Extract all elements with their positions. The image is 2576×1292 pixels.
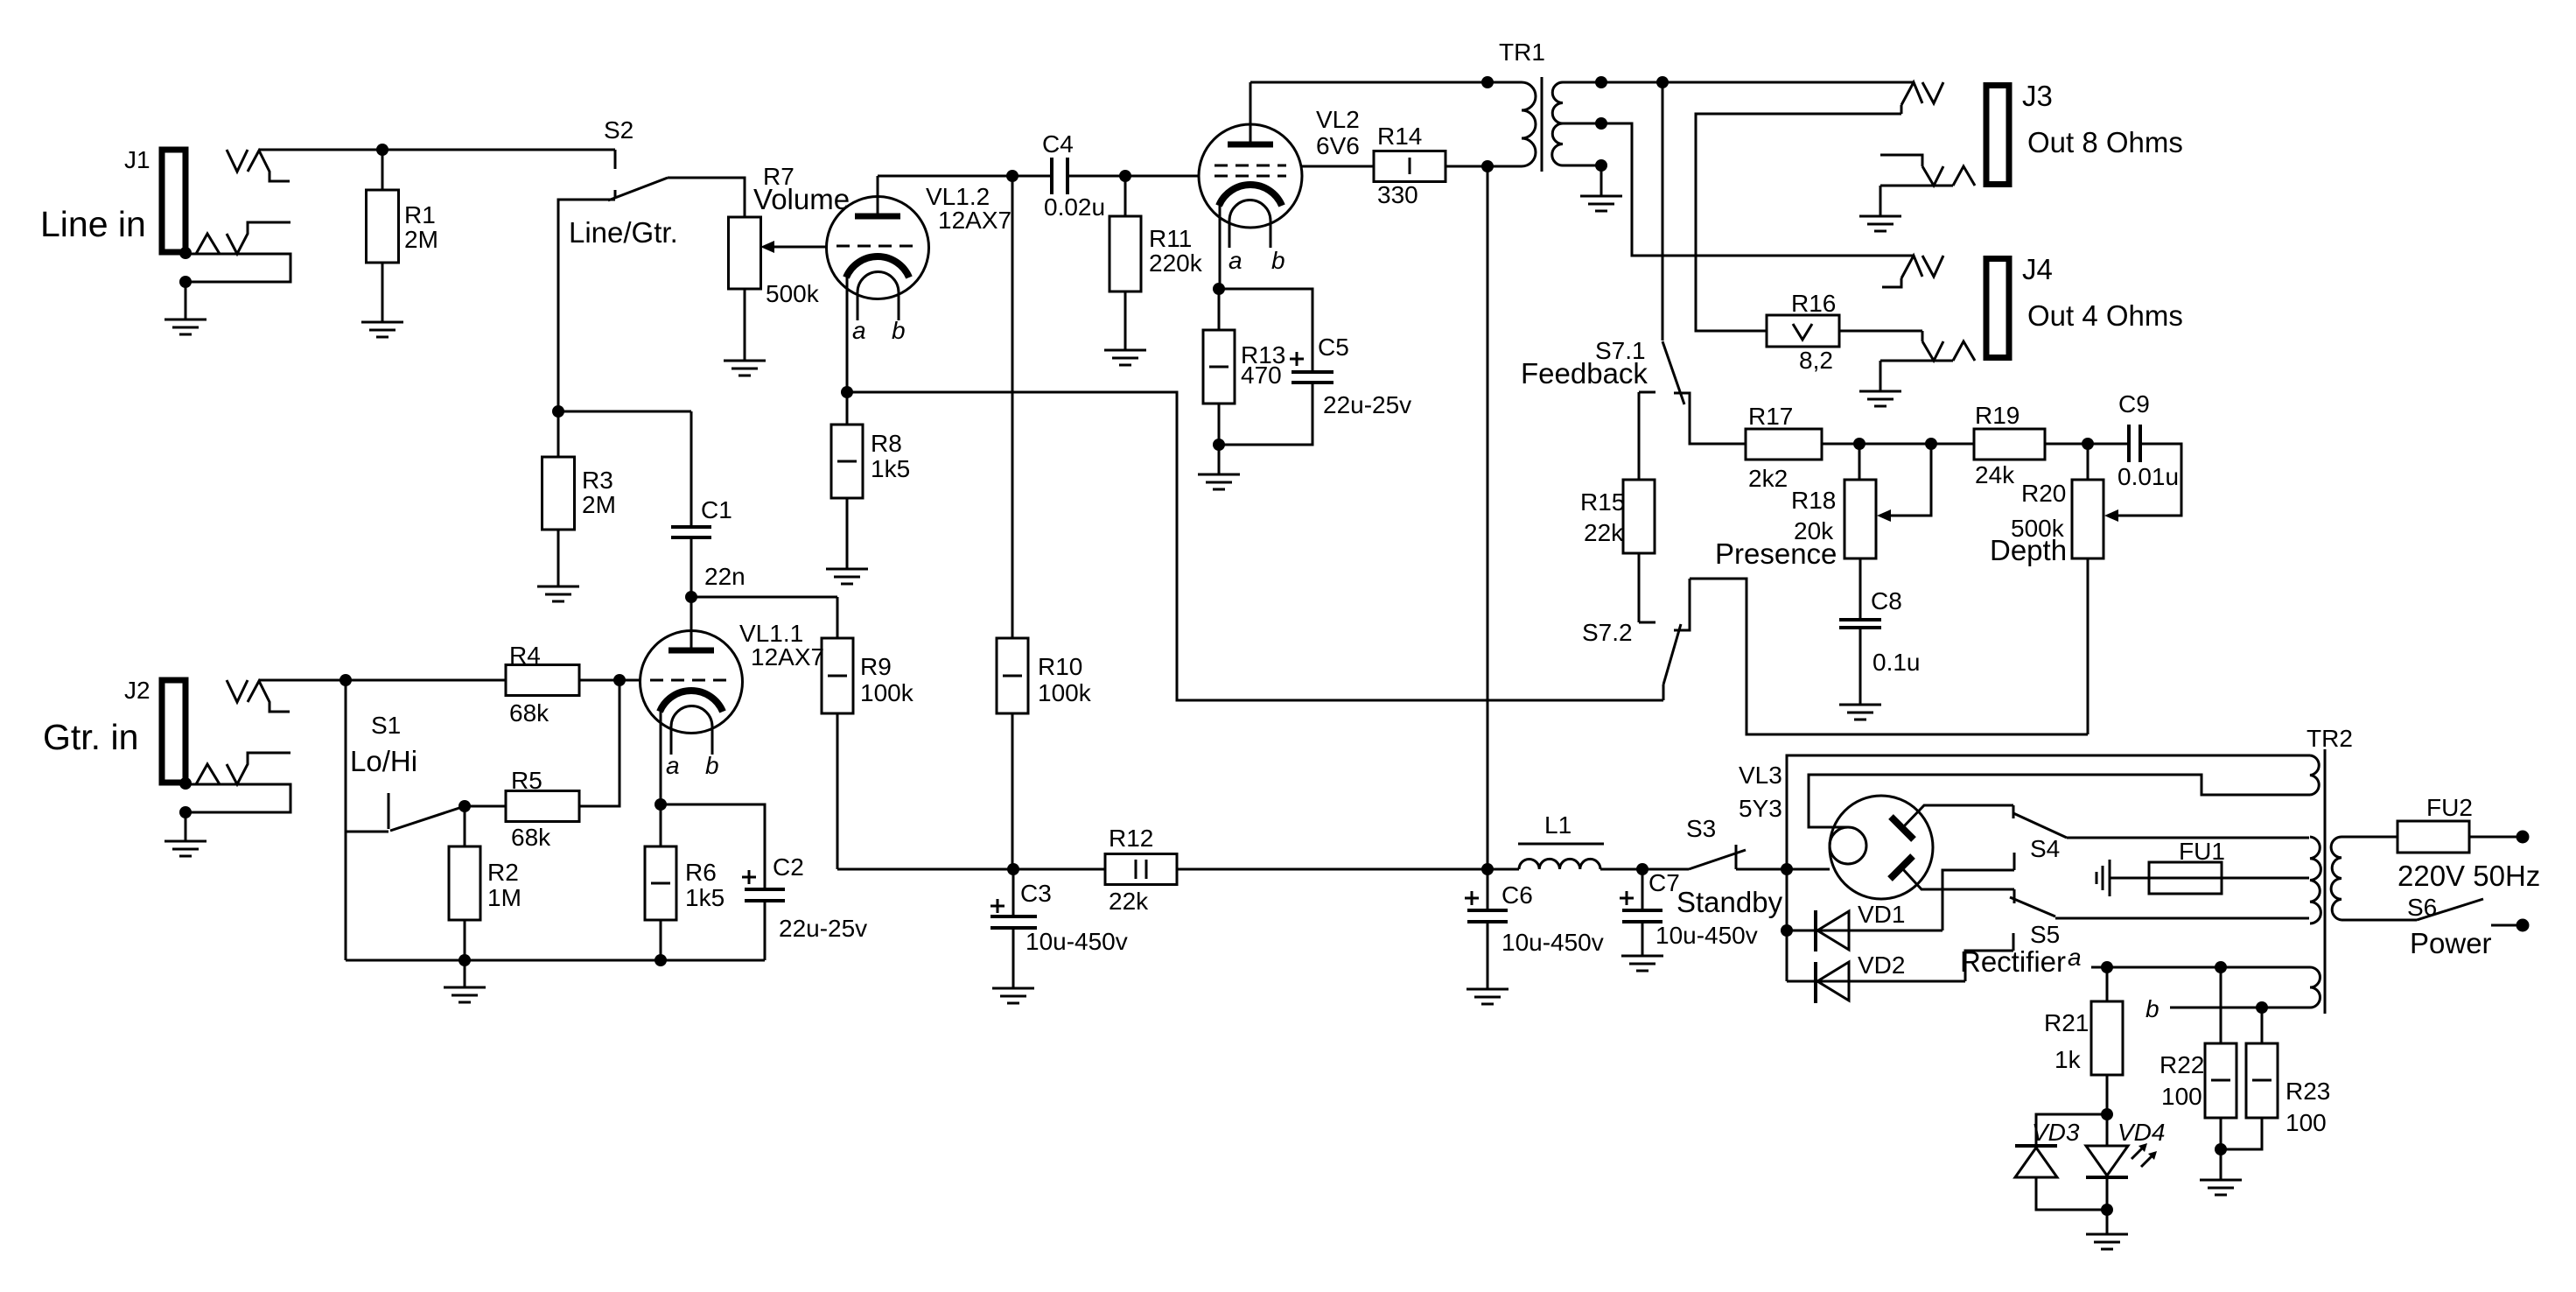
wire TR1 bottom down to main bus: [1487, 166, 1489, 869]
svg-text:Feedback: Feedback: [1521, 357, 1648, 390]
resistor R12 22k: [1105, 825, 1177, 915]
wire heater winding a: [2091, 966, 2310, 969]
svg-text:220k: 220k: [1149, 249, 1203, 277]
capacitor C5 22u-25v: [1219, 289, 1411, 445]
svg-text:S3: S3: [1686, 815, 1716, 842]
resistor R11 220k: [1109, 176, 1203, 350]
svg-text:b: b: [2145, 995, 2159, 1022]
svg-text:a: a: [666, 752, 680, 779]
svg-text:1k: 1k: [2054, 1046, 2082, 1073]
svg-text:Out 8 Ohms: Out 8 Ohms: [2027, 126, 2183, 158]
svg-text:0.1u: 0.1u: [1872, 649, 1921, 676]
svg-text:10u-450v: 10u-450v: [1501, 929, 1604, 956]
node S1/R5/R2: [458, 800, 471, 812]
svg-text:22k: 22k: [1109, 888, 1149, 915]
jack J2 Gtr. in: [43, 677, 290, 812]
svg-text:b: b: [892, 317, 906, 344]
resistor R8 1k5: [831, 392, 910, 569]
resistor R23 100: [2221, 1008, 2330, 1149]
ground under R8: [826, 569, 868, 584]
svg-text:R18: R18: [1791, 487, 1836, 514]
node J2 sleeve: [179, 777, 192, 790]
transformer TR2: [2306, 725, 2353, 1014]
svg-text:100: 100: [2161, 1083, 2202, 1110]
ground under R13: [1218, 445, 1221, 474]
diode VD2: [1787, 933, 2013, 1003]
wire S7.1 drop: [1662, 82, 1664, 341]
wire S7.2 upper contact to R20 bottom line: [1690, 579, 2088, 734]
diode VD3: [2015, 1114, 2107, 1210]
ground under C7: [1621, 956, 1663, 971]
svg-text:VD4: VD4: [2117, 1119, 2165, 1146]
tube VL1.2 12AX7: [827, 176, 1012, 392]
wire to VL2 grid: [1125, 175, 1199, 178]
svg-text:J1: J1: [124, 146, 150, 173]
switch S2 Line/Gtr.: [569, 116, 678, 249]
resistor R22 100: [2159, 967, 2236, 1149]
node R18 wiper takeoff: [1925, 438, 1937, 450]
node VL3 B+: [1781, 863, 1793, 875]
node VL2 cathode R13: [1213, 283, 1225, 295]
wire C1 node to R9: [691, 596, 837, 599]
svg-text:Volume: Volume: [753, 183, 850, 215]
node rail/R2: [458, 954, 471, 966]
node R8 cathode junction: [841, 386, 853, 398]
svg-text:C9: C9: [2118, 390, 2150, 418]
wire S2 common to R7: [668, 178, 745, 217]
svg-text:R17: R17: [1748, 403, 1793, 430]
resistor R3 2M: [542, 411, 616, 586]
wire secondary mid to J4 tip: [1601, 123, 1914, 256]
svg-text:R14: R14: [1377, 123, 1422, 150]
wire heater winding b: [2170, 1007, 2310, 1009]
node R1 top: [376, 144, 388, 156]
svg-text:S5: S5: [2030, 921, 2060, 948]
node R13 bottom: [1213, 439, 1225, 451]
node J2 ground: [179, 806, 192, 818]
node C6/L1: [1481, 863, 1494, 875]
switch S5 Rectifier: [1960, 897, 2066, 978]
inductor L1: [1518, 811, 1604, 869]
svg-text:VD1: VD1: [1858, 901, 1905, 928]
svg-text:C8: C8: [1871, 587, 1902, 614]
svg-text:R8: R8: [871, 430, 902, 457]
capacitor C8 0.1u: [1839, 587, 1921, 705]
node VL1.1 cathode: [654, 798, 667, 811]
ground under J3: [1879, 186, 1882, 216]
svg-text:R5: R5: [511, 767, 542, 794]
wire main B+ bus: [837, 868, 1105, 871]
svg-text:2M: 2M: [582, 491, 616, 518]
node R19/R20: [2082, 438, 2094, 450]
wire S5 to TR2: [2055, 917, 2309, 920]
ground under C8: [1839, 705, 1881, 720]
capacitor C1 22n: [671, 411, 745, 597]
svg-text:12AX7: 12AX7: [751, 643, 824, 671]
potentiometer R18 Presence 20k: [1715, 444, 1931, 620]
capacitor C6 10u-450v: [1465, 869, 1604, 989]
svg-text:24k: 24k: [1975, 461, 2015, 488]
resistor R14 330: [1302, 123, 1487, 208]
jack J4 Out 4 Ohms: [1880, 253, 2183, 361]
resistor R13 470: [1203, 289, 1285, 445]
svg-text:FU2: FU2: [2426, 794, 2473, 821]
node J1 sleeve: [179, 247, 192, 259]
wire secondary top to J3 tip: [1601, 81, 1914, 84]
node C4/R10: [1006, 170, 1018, 182]
fuse FU2: [2341, 794, 2523, 853]
wire node line: [1859, 443, 1974, 446]
svg-text:S4: S4: [2030, 835, 2060, 862]
svg-text:Presence: Presence: [1715, 537, 1837, 570]
capacitor C2 22u-25v: [661, 804, 867, 960]
jack J1 Line in: [40, 146, 290, 282]
svg-text:VL3: VL3: [1739, 762, 1782, 789]
node VD3/VD4 bottom: [2101, 1204, 2113, 1216]
svg-text:a: a: [852, 317, 866, 344]
wire J3 tip stub to R16: [1696, 114, 1901, 331]
resistor R1 2M: [367, 150, 438, 322]
node S1 top: [339, 674, 352, 686]
ground under R7: [724, 361, 766, 376]
svg-text:5Y3: 5Y3: [1739, 795, 1782, 822]
svg-text:Line/Gtr.: Line/Gtr.: [569, 216, 678, 249]
resistor R15 22k: [1580, 392, 1655, 622]
svg-text:J4: J4: [2022, 253, 2053, 285]
svg-text:2M: 2M: [404, 226, 438, 253]
switch S3 Standby: [1676, 815, 1787, 918]
svg-text:Gtr. in: Gtr. in: [43, 717, 138, 757]
svg-text:22u-25v: 22u-25v: [1323, 391, 1411, 418]
svg-text:12AX7: 12AX7: [938, 207, 1011, 234]
wire S2 lower contact to R3/C1 node: [558, 200, 615, 411]
svg-text:10u-450v: 10u-450v: [1655, 922, 1758, 949]
ground under rail: [464, 960, 466, 987]
svg-text:a: a: [2068, 944, 2082, 971]
svg-text:2k2: 2k2: [1748, 465, 1788, 492]
svg-text:R19: R19: [1975, 402, 2019, 429]
svg-text:R16: R16: [1791, 290, 1836, 317]
ground under J4: [1879, 361, 1882, 391]
svg-text:68k: 68k: [511, 824, 551, 851]
ground under VD3/VD4: [2106, 1210, 2109, 1234]
svg-text:J2: J2: [124, 677, 150, 704]
wire node to C1: [558, 411, 691, 413]
svg-text:Rectifier: Rectifier: [1960, 945, 2066, 978]
svg-text:C2: C2: [773, 853, 804, 881]
svg-text:Standby: Standby: [1676, 886, 1783, 918]
svg-text:J3: J3: [2022, 80, 2053, 112]
resistor R10 100k: [997, 176, 1092, 869]
switch S6 Power: [2341, 894, 2523, 959]
ground under C3: [992, 988, 1034, 1003]
svg-text:220V 50Hz: 220V 50Hz: [2397, 860, 2540, 892]
node R22 top: [2215, 961, 2227, 973]
svg-text:22n: 22n: [704, 563, 745, 590]
diode VD1: [1787, 853, 2014, 951]
ground under TR1 secondary: [1600, 165, 1603, 196]
svg-text:C4: C4: [1042, 130, 1074, 158]
wire J2 to R4: [259, 679, 506, 682]
svg-text:R6: R6: [685, 859, 717, 886]
svg-text:C5: C5: [1318, 334, 1349, 361]
potentiometer R20 Depth 500k: [1990, 444, 2181, 734]
resistor R5 68k: [465, 680, 619, 851]
svg-text:S1: S1: [371, 712, 401, 739]
fuse FU1: [2110, 838, 2309, 894]
node TR1 secondary mid: [1595, 117, 1607, 130]
node R22/R23 ground: [2215, 1143, 2227, 1155]
svg-text:1M: 1M: [487, 884, 521, 911]
resistor R4 68k: [506, 642, 619, 727]
wire VL3 node down to diodes: [1786, 869, 1788, 981]
svg-text:R20: R20: [2021, 480, 2066, 507]
svg-text:1k5: 1k5: [871, 455, 910, 482]
svg-text:R9: R9: [860, 653, 892, 680]
svg-text:R15: R15: [1580, 488, 1625, 516]
ground at FU1: [2096, 860, 2110, 896]
svg-text:0.01u: 0.01u: [2117, 463, 2179, 490]
resistor R16 8,2: [1767, 290, 1922, 374]
svg-text:Depth: Depth: [1990, 534, 2067, 566]
svg-text:68k: 68k: [509, 699, 549, 727]
svg-text:1k5: 1k5: [685, 884, 724, 911]
resistor R9 100k: [822, 597, 914, 869]
svg-text:S7.2: S7.2: [1582, 619, 1633, 646]
svg-text:8,2: 8,2: [1799, 347, 1833, 374]
jack J3 Out 8 Ohms: [1880, 80, 2183, 186]
node VL1.1 grid: [613, 674, 626, 686]
node TR1 secondary bottom: [1595, 159, 1607, 172]
svg-text:VD3: VD3: [2032, 1119, 2080, 1146]
node C4/R11: [1119, 170, 1131, 182]
switch S7.2: [1582, 579, 1690, 700]
svg-text:Line in: Line in: [40, 204, 146, 244]
svg-text:S6: S6: [2407, 894, 2437, 921]
svg-text:10u-450v: 10u-450v: [1025, 928, 1128, 955]
svg-text:TR1: TR1: [1499, 39, 1545, 66]
node J1 ground: [179, 276, 192, 288]
tube VL3 5Y3: [1739, 762, 2014, 899]
wire L1 to S3: [1600, 868, 1689, 871]
ground under R11: [1104, 350, 1146, 365]
node R17/R18: [1853, 438, 1865, 450]
svg-text:S2: S2: [604, 116, 633, 144]
svg-text:R11: R11: [1149, 225, 1192, 252]
svg-text:VD2: VD2: [1858, 951, 1905, 979]
resistor R2 1M: [449, 806, 521, 960]
svg-text:R23: R23: [2285, 1078, 2330, 1105]
wire VL3 filament to TR2 HV bottom: [1809, 775, 2310, 827]
tube VL2 6V6: [1199, 82, 1360, 289]
svg-text:C1: C1: [701, 496, 732, 523]
svg-text:100: 100: [2285, 1109, 2327, 1136]
svg-text:330: 330: [1377, 181, 1418, 208]
svg-text:R3: R3: [582, 467, 613, 494]
svg-text:C3: C3: [1020, 880, 1052, 907]
svg-text:TR2: TR2: [2306, 725, 2353, 752]
svg-text:22k: 22k: [1584, 519, 1624, 546]
node R21 top: [2101, 961, 2113, 973]
svg-text:22u-25v: 22u-25v: [779, 915, 867, 942]
node rail/R6: [654, 954, 667, 966]
terminal 220V bottom: [2516, 919, 2530, 932]
transformer TR1: [1487, 39, 1601, 172]
wire VL3 box to TR2 HV top: [1787, 755, 2310, 869]
tube VL1.1 12AX7: [619, 597, 824, 804]
ground under R3: [537, 586, 579, 601]
ground under J1: [185, 282, 187, 319]
node S7.1 takeoff: [1656, 76, 1669, 88]
diode VD4 LED: [2086, 1114, 2165, 1210]
ground under C6: [1466, 989, 1508, 1004]
resistor R21 1k: [2044, 967, 2123, 1114]
svg-text:FU1: FU1: [2179, 838, 2225, 865]
svg-text:R22: R22: [2159, 1051, 2204, 1078]
terminal 220V top: [2516, 831, 2530, 844]
wire S4 to TR2: [2067, 837, 2309, 839]
node TR1 secondary top: [1595, 76, 1607, 88]
svg-text:b: b: [1271, 247, 1285, 274]
svg-text:Out 4 Ohms: Out 4 Ohms: [2027, 299, 2183, 332]
svg-text:a: a: [1228, 247, 1242, 274]
svg-text:6V6: 6V6: [1316, 132, 1360, 159]
switch S4: [2013, 805, 2067, 903]
wire J1 to S2: [259, 149, 615, 151]
ground under R1: [361, 322, 403, 337]
svg-text:R21: R21: [2044, 1009, 2089, 1036]
svg-text:100k: 100k: [860, 679, 914, 706]
svg-text:VL2: VL2: [1316, 106, 1360, 133]
svg-text:R2: R2: [487, 859, 519, 886]
svg-text:C7: C7: [1648, 869, 1680, 896]
node TR1 primary bottom: [1481, 160, 1494, 172]
wire ground rail of input stage: [346, 959, 765, 962]
resistor R17 2k2: [1746, 403, 1859, 492]
node R3/C1: [552, 405, 564, 418]
wire VL1.2 plate to C4: [878, 175, 1052, 178]
svg-text:C6: C6: [1501, 881, 1533, 909]
ground under J2: [185, 812, 187, 841]
svg-text:R4: R4: [509, 642, 541, 669]
wire VL2 plate to TR1: [1250, 81, 1487, 84]
svg-text:100k: 100k: [1038, 679, 1092, 706]
capacitor C4 0.02u: [1042, 130, 1125, 221]
resistor R6 1k5: [645, 804, 724, 960]
node R21/VD3/VD4: [2101, 1108, 2113, 1120]
capacitor C9 0.01u: [2117, 390, 2179, 490]
switch S1 Lo/Hi: [346, 680, 462, 960]
capacitor C3 10u-450v: [990, 869, 1128, 988]
node C3/R10: [1007, 863, 1019, 875]
node C7: [1636, 863, 1648, 875]
resistor R19 24k: [1974, 402, 2129, 488]
node VD1: [1781, 924, 1793, 937]
svg-text:R1: R1: [404, 201, 436, 228]
wire R8 node feedback takeoff: [847, 392, 1663, 700]
capacitor C7 10u-450v: [1620, 869, 1758, 956]
switch S7.1 Feedback: [1521, 337, 1746, 444]
potentiometer R7 Volume 500k: [729, 163, 850, 361]
wire bus R12 to L1: [1177, 868, 1519, 871]
svg-text:Power: Power: [2410, 927, 2492, 959]
node TR1 primary top: [1481, 76, 1494, 88]
node C1/VL1.1 plate: [685, 591, 697, 603]
svg-text:b: b: [705, 752, 719, 779]
svg-text:0.02u: 0.02u: [1044, 193, 1105, 221]
ground under R22/R23: [2220, 1149, 2222, 1180]
svg-text:500k: 500k: [766, 280, 820, 307]
svg-text:Lo/Hi: Lo/Hi: [350, 745, 417, 777]
node R23 top: [2256, 1001, 2268, 1014]
svg-text:470: 470: [1241, 362, 1282, 389]
svg-text:R12: R12: [1109, 825, 1153, 852]
svg-text:L1: L1: [1544, 811, 1571, 839]
svg-text:R10: R10: [1038, 653, 1082, 680]
